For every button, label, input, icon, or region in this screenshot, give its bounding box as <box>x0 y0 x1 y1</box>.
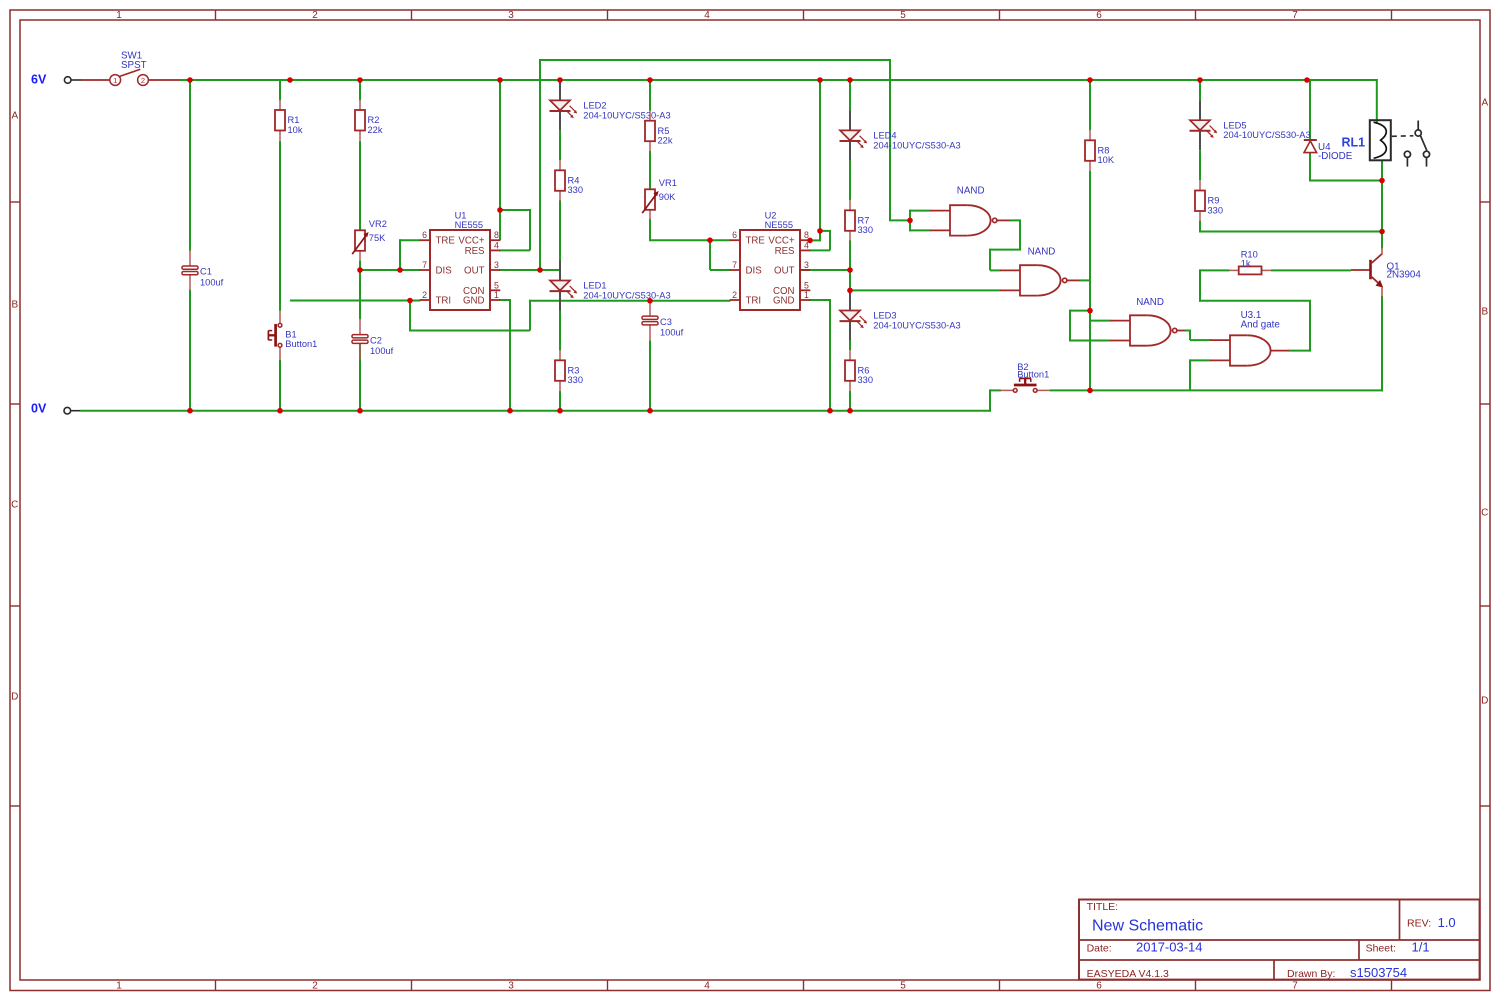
LED LED3 <box>840 291 961 341</box>
svg-text:New Schematic: New Schematic <box>1092 918 1203 935</box>
svg-text:NAND: NAND <box>1028 247 1056 258</box>
svg-text:90K: 90K <box>659 192 676 202</box>
title block text Drawn By <box>1287 965 1407 980</box>
svg-text:Date:: Date: <box>1087 942 1112 954</box>
NAND gate 3 output stub <box>1177 330 1185 332</box>
svg-text:R4: R4 <box>568 176 580 186</box>
wire R2-VR2-C2 branch <box>359 80 361 100</box>
svg-text:B: B <box>1481 307 1488 318</box>
svg-text:3: 3 <box>494 260 499 270</box>
svg-text:6: 6 <box>732 230 737 240</box>
wire NAND1 out to NAND2 in <box>1009 219 1020 221</box>
svg-text:3: 3 <box>508 10 514 21</box>
svg-text:U1: U1 <box>455 211 467 221</box>
U2 pin 1 GND <box>773 290 810 307</box>
wire U2 TRE-DIS link <box>709 239 711 270</box>
AND gate U3.1 <box>1230 335 1271 365</box>
LED LED1 <box>550 261 671 311</box>
svg-text:Drawn By:: Drawn By: <box>1287 968 1335 980</box>
resistor R3 <box>555 350 583 391</box>
relay RL1 contact set <box>1392 121 1430 167</box>
NAND gate 1 input stubs <box>930 211 950 231</box>
wire U1 RES loop <box>500 209 530 211</box>
svg-text:5: 5 <box>900 980 906 991</box>
wire Q1 emitter down <box>1381 296 1383 391</box>
svg-text:R6: R6 <box>858 366 870 376</box>
U1 pin 6 TRE <box>420 230 456 247</box>
wire U1 GND to 0V <box>499 299 510 301</box>
NAND gate 2 input stubs <box>1000 270 1020 290</box>
AND gate U3.1 output stub <box>1271 350 1289 352</box>
junction dots mid circuit <box>357 178 1385 394</box>
U1 pin 4 RES <box>465 240 501 257</box>
U2 pin 6 TRE <box>730 230 766 247</box>
svg-text:OUT: OUT <box>464 266 485 277</box>
capacitor C2 <box>352 319 394 359</box>
AND gate U3.1 input stubs <box>1210 340 1230 360</box>
U1 pin 5 CON <box>463 280 500 297</box>
wire B2 line right <box>1050 389 1383 391</box>
svg-text:NAND: NAND <box>1136 297 1164 308</box>
NAND gate 3 input stubs <box>1110 321 1130 341</box>
svg-text:RES: RES <box>775 246 795 257</box>
svg-text:TRE: TRE <box>436 236 456 247</box>
svg-text:204-10UYC/S530-A3: 204-10UYC/S530-A3 <box>1223 130 1310 140</box>
node 6V terminal <box>31 73 81 87</box>
wire NAND3 out to U3.1 <box>1184 330 1190 332</box>
svg-text:1: 1 <box>116 10 122 21</box>
svg-text:TRE: TRE <box>746 236 766 247</box>
resistor R9 <box>1195 181 1223 222</box>
svg-text:C3: C3 <box>660 317 672 327</box>
wire U3.1 out loop to R10 <box>1289 350 1310 352</box>
svg-text:330: 330 <box>568 185 584 195</box>
IC U2 NE555 <box>730 211 811 311</box>
svg-text:R1: R1 <box>288 115 300 125</box>
svg-text:TRI: TRI <box>436 296 452 307</box>
svg-text:7: 7 <box>1292 10 1298 21</box>
wire LED2-R4-LED1-R3 chain <box>559 130 561 160</box>
svg-text:330: 330 <box>568 375 584 385</box>
svg-text:1.0: 1.0 <box>1438 915 1456 930</box>
wire R8 chain down to B2 line <box>1089 80 1091 130</box>
U1 pin 2 TRI <box>420 290 451 307</box>
svg-text:2N3904: 2N3904 <box>1387 269 1422 280</box>
svg-text:1: 1 <box>113 76 117 85</box>
svg-text:204-10UYC/S530-A3: 204-10UYC/S530-A3 <box>583 110 670 120</box>
wire TRI detour loop <box>409 301 411 331</box>
resistor R2 <box>355 100 383 141</box>
wire U2 RES loop <box>820 230 830 232</box>
svg-text:A: A <box>1481 98 1488 109</box>
wire U1 DIS line <box>360 269 421 271</box>
LED LED2 <box>550 80 671 130</box>
svg-text:100uf: 100uf <box>200 277 224 287</box>
wire U2 OUT line <box>799 269 850 271</box>
wire NAND1 input tie <box>910 210 931 212</box>
svg-text:GND: GND <box>463 296 485 307</box>
svg-text:1/1: 1/1 <box>1412 940 1430 955</box>
title block <box>1079 900 1480 980</box>
svg-text:GND: GND <box>773 296 795 307</box>
svg-text:5: 5 <box>494 280 499 290</box>
svg-text:7: 7 <box>732 260 737 270</box>
svg-text:U2: U2 <box>765 211 777 221</box>
wire relay feed down <box>1376 79 1378 124</box>
svg-text:75K: 75K <box>369 233 386 243</box>
push button B2 <box>1000 362 1050 392</box>
wire R9 to Q1 collector <box>1199 231 1382 233</box>
svg-text:4: 4 <box>704 10 710 21</box>
svg-text:100uf: 100uf <box>370 346 394 356</box>
svg-text:22k: 22k <box>368 125 383 135</box>
resistor R5 <box>645 111 673 152</box>
svg-text:2: 2 <box>312 10 318 21</box>
svg-text:-DIODE: -DIODE <box>1318 151 1353 162</box>
svg-text:10K: 10K <box>1098 155 1115 165</box>
svg-text:R8: R8 <box>1098 146 1110 156</box>
title block text Sheet <box>1366 940 1430 955</box>
resistor R10 <box>1229 249 1271 274</box>
wire U1 OUT line <box>499 269 559 271</box>
svg-text:4: 4 <box>494 240 499 250</box>
diode U4 <box>1304 140 1353 162</box>
svg-text:3: 3 <box>508 980 514 991</box>
resistor R8 <box>1085 130 1115 171</box>
svg-text:6: 6 <box>1096 980 1102 991</box>
U1 pin 3 OUT <box>464 260 500 277</box>
svg-text:C: C <box>1481 508 1488 519</box>
svg-text:2: 2 <box>141 76 145 85</box>
junction dots 0V rail <box>187 408 853 414</box>
wire C1 branch <box>189 80 191 251</box>
svg-text:C1: C1 <box>200 267 212 277</box>
wire LED3 to NAND2 input <box>850 289 1001 291</box>
svg-text:100uf: 100uf <box>660 327 684 337</box>
title block text Date <box>1087 940 1203 955</box>
svg-text:204-10UYC/S530-A3: 204-10UYC/S530-A3 <box>873 140 960 150</box>
svg-text:2: 2 <box>422 290 427 300</box>
svg-text:7: 7 <box>1292 980 1298 991</box>
svg-text:10k: 10k <box>288 125 303 135</box>
relay RL1 coil <box>1342 120 1391 160</box>
svg-text:330: 330 <box>1208 205 1224 215</box>
svg-text:A: A <box>11 111 18 122</box>
svg-text:DIS: DIS <box>746 266 763 277</box>
svg-text:RES: RES <box>465 246 485 257</box>
svg-text:22k: 22k <box>658 136 673 146</box>
svg-text:NE555: NE555 <box>455 220 483 230</box>
svg-text:R7: R7 <box>858 216 870 226</box>
U2 pin 3 OUT <box>774 260 810 277</box>
svg-text:R9: R9 <box>1208 196 1220 206</box>
rheostat VR2 <box>352 219 387 260</box>
wire U3.1 lower input from B2 line <box>1190 359 1211 361</box>
U1 pin 1 GND <box>463 290 500 307</box>
svg-text:B: B <box>11 300 18 311</box>
svg-text:1k: 1k <box>1241 259 1251 269</box>
svg-text:5: 5 <box>900 10 906 21</box>
U1 pin 8 VCC+ <box>458 230 500 247</box>
svg-text:LED3: LED3 <box>873 311 896 321</box>
svg-text:Button1: Button1 <box>1017 370 1049 380</box>
U2 pin 7 DIS <box>730 260 762 277</box>
wire top loop OUT1 to NAND <box>539 59 541 270</box>
svg-text:OUT: OUT <box>774 266 795 277</box>
svg-text:330: 330 <box>858 375 874 385</box>
svg-text:LED2: LED2 <box>583 101 606 111</box>
wire U1 TRE link <box>400 239 421 241</box>
wire U4 branch <box>1309 80 1311 140</box>
wire R10 to Q1 base <box>1271 269 1351 271</box>
svg-text:R5: R5 <box>658 126 670 136</box>
push button B1 <box>268 311 317 360</box>
svg-text:NE555: NE555 <box>765 220 793 230</box>
svg-text:TRI: TRI <box>746 296 762 307</box>
wire LED5-R9 chain <box>1199 80 1201 100</box>
svg-text:NAND: NAND <box>957 186 985 197</box>
svg-text:330: 330 <box>858 225 874 235</box>
svg-text:B1: B1 <box>285 330 296 340</box>
svg-text:0V: 0V <box>31 402 47 416</box>
svg-text:Button1: Button1 <box>285 339 317 349</box>
wire NAND3 upper input <box>1090 320 1111 322</box>
svg-text:8: 8 <box>494 230 499 240</box>
svg-text:R3: R3 <box>568 366 580 376</box>
NAND gate 3 <box>1130 315 1177 345</box>
svg-text:LED4: LED4 <box>873 131 896 141</box>
title block text REV <box>1407 915 1456 930</box>
svg-text:6V: 6V <box>31 73 47 87</box>
svg-text:6: 6 <box>422 230 427 240</box>
wire 0V jog up to B2 <box>989 389 991 411</box>
capacitor C3 <box>642 301 684 341</box>
wire Q1 collector up <box>1381 231 1383 249</box>
frame row ticks and letters <box>10 98 1490 807</box>
wire 6V rail <box>180 79 1378 81</box>
LED LED5 <box>1190 100 1311 150</box>
svg-text:s1503754: s1503754 <box>1350 965 1407 980</box>
svg-text:DIS: DIS <box>436 266 453 277</box>
svg-text:C: C <box>11 500 18 511</box>
svg-text:VR1: VR1 <box>659 178 677 188</box>
NAND gate 1 output stub <box>997 219 1010 221</box>
svg-text:6: 6 <box>1096 10 1102 21</box>
svg-text:VR2: VR2 <box>369 219 387 229</box>
IC U1 NE555 <box>420 211 501 311</box>
svg-text:C2: C2 <box>370 335 382 345</box>
wire R1-B1 branch <box>279 80 281 100</box>
wire U4 to relay bottom <box>1309 180 1383 182</box>
svg-text:And gate: And gate <box>1241 319 1281 330</box>
label U3.1 And gate <box>1241 310 1281 330</box>
svg-text:Sheet:: Sheet: <box>1366 942 1396 954</box>
junction dots 6V rail <box>187 77 1310 83</box>
rheostat VR1 <box>642 178 677 219</box>
wire NAND2 out <box>1079 279 1091 281</box>
wire TRI line left <box>290 300 421 302</box>
U2 pin 8 VCC+ <box>768 230 810 247</box>
wire VR1 to U2 TRE <box>650 239 731 241</box>
svg-text:1: 1 <box>494 290 499 300</box>
wire 0V rail <box>80 410 991 412</box>
svg-text:TITLE:: TITLE: <box>1087 901 1119 913</box>
node 0V terminal <box>31 402 80 416</box>
LED LED4 <box>840 110 961 160</box>
svg-text:2: 2 <box>312 980 318 991</box>
U2 pin 2 TRI <box>730 290 761 307</box>
wire U2 VCC feed <box>819 80 821 240</box>
NAND gate 1 <box>950 205 997 235</box>
svg-text:SPST: SPST <box>121 60 147 71</box>
svg-text:REV:: REV: <box>1407 917 1431 929</box>
wire U1 VCC feed <box>499 80 501 240</box>
svg-text:3: 3 <box>804 260 809 270</box>
NAND gate 2 output stub <box>1067 279 1080 281</box>
transistor Q1 2N3904 <box>1351 248 1421 297</box>
wire U2 GND to 0V <box>809 299 830 301</box>
resistor R7 <box>845 200 873 241</box>
resistor R4 <box>555 160 583 201</box>
switch SW1 SPST <box>81 51 180 86</box>
U2 pin 4 RES <box>775 240 811 257</box>
svg-text:5: 5 <box>804 280 809 290</box>
svg-text:LED1: LED1 <box>583 281 606 291</box>
wire R5-VR1 chain <box>649 80 651 111</box>
capacitor C1 <box>182 251 224 291</box>
wire C3 branch <box>649 301 651 302</box>
svg-text:RL1: RL1 <box>1342 136 1366 150</box>
wire NAND3 lower input loop <box>1070 310 1090 312</box>
NAND gate 2 <box>1020 265 1067 295</box>
wire relay coil bottom <box>1381 160 1383 233</box>
svg-text:2017-03-14: 2017-03-14 <box>1136 940 1203 955</box>
svg-text:4: 4 <box>704 980 710 991</box>
svg-text:1: 1 <box>116 980 122 991</box>
svg-text:LED5: LED5 <box>1223 120 1246 130</box>
svg-text:2: 2 <box>732 290 737 300</box>
wire TRI line right to U2 <box>529 300 731 302</box>
svg-text:R2: R2 <box>368 115 380 125</box>
svg-text:1: 1 <box>804 290 809 300</box>
svg-text:EASYEDA V4.1.3: EASYEDA V4.1.3 <box>1087 968 1169 980</box>
U2 pin 5 CON <box>773 280 810 297</box>
resistor R6 <box>845 350 873 391</box>
svg-text:204-10UYC/S530-A3: 204-10UYC/S530-A3 <box>583 290 670 300</box>
svg-text:D: D <box>11 692 18 703</box>
svg-text:D: D <box>1481 696 1488 707</box>
svg-text:204-10UYC/S530-A3: 204-10UYC/S530-A3 <box>873 320 960 330</box>
resistor R1 <box>275 100 303 141</box>
svg-text:7: 7 <box>422 260 427 270</box>
wire LED4-R7-LED3-R6 chain <box>849 80 851 110</box>
U1 pin 7 DIS <box>420 260 452 277</box>
